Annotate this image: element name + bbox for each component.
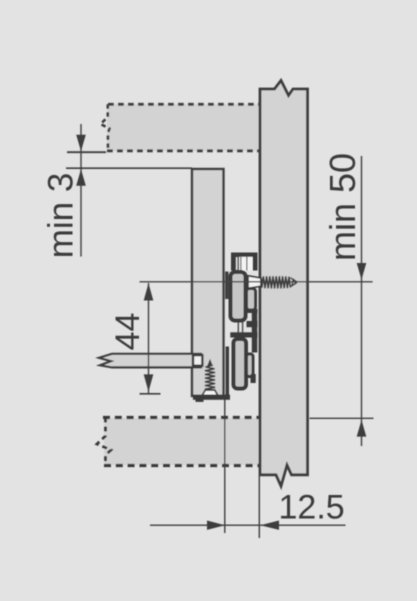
upper left hook tab (225, 272, 228, 300)
connector vertical (252, 311, 257, 353)
dimension min 50 : extension line bottom (310, 417, 374, 419)
lower right stub (251, 374, 256, 383)
dimension min 3 : arrow up (76, 169, 86, 186)
lower small pad (rounded) (247, 354, 254, 377)
axis line through screw (140, 281, 373, 283)
vertical screw head (countersunk, white) (202, 390, 218, 395)
dimension 44 : dimension line (148, 283, 150, 394)
dimension 44 : bottom tick (140, 393, 161, 395)
slot inner profile lines (240, 257, 242, 271)
cabinet side panel (right, with break symbols top and bottom) (260, 81, 308, 487)
vertical screw tip (207, 359, 213, 366)
bottom hook bar (193, 395, 230, 400)
drawer back panel (vertical, middle) (192, 169, 224, 396)
dimension min 50 : dimension line (361, 156, 363, 446)
dimension 12.5 : arrow right (207, 521, 225, 530)
lower left hook tab (226, 347, 229, 397)
svg-text:min 50: min 50 (322, 153, 363, 261)
dimension min 3 : extension line top (67, 151, 106, 153)
lower bracket body (rounded) (234, 339, 247, 389)
dimension 12.5 : left extension line (224, 399, 226, 533)
dimension min 3 : dimension line (80, 124, 82, 257)
dimension 44 : arrow up (144, 283, 154, 300)
drawer bottom bar with break symbol at left end (99, 354, 201, 368)
horizontal screw head (countersunk, white) (248, 276, 261, 289)
dimension min 3 : arrow down (76, 135, 86, 152)
vertical screw threads (205, 365, 215, 390)
svg-text:12.5: 12.5 (279, 489, 345, 527)
drawer bottom bar end cap (193, 355, 202, 366)
svg-text:min 3: min 3 (42, 173, 81, 259)
horizontal screw taper tip (290, 278, 297, 287)
dimension min 3 : extension line bottom (66, 167, 192, 169)
upper bracket slot (white) (239, 257, 252, 271)
dimension 12.5 : dimension line (150, 524, 346, 526)
dimension 12.5 : right extension line (258, 476, 260, 538)
dimension min 50 : arrow up (357, 420, 367, 437)
bottom hook step (196, 399, 204, 402)
bottom shelf panel (dashed outline, cross-section) (97, 418, 260, 466)
top shelf panel (dashed outline, cross-section) (101, 104, 261, 151)
dimension 44 : arrow down (144, 374, 154, 391)
connector lower bar (247, 321, 258, 327)
upper bracket body (rounded) (231, 272, 246, 321)
svg-text:44: 44 (109, 313, 147, 351)
lower bracket top bar (230, 332, 257, 337)
dimension min 50 : arrow down (357, 263, 367, 280)
connector bar (247, 309, 258, 313)
upper small pad (rounded) (247, 289, 256, 311)
horizontal screw threads (261, 276, 290, 288)
upper bracket hook (dark) (231, 253, 258, 271)
runner profile thin edge lines (237, 255, 239, 340)
dimension 12.5 : arrow left (260, 521, 279, 530)
